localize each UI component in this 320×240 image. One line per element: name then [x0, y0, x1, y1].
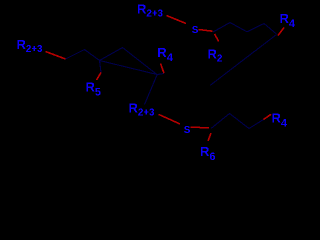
svg-text:S: S [192, 25, 199, 36]
svg-text:S: S [184, 125, 191, 136]
